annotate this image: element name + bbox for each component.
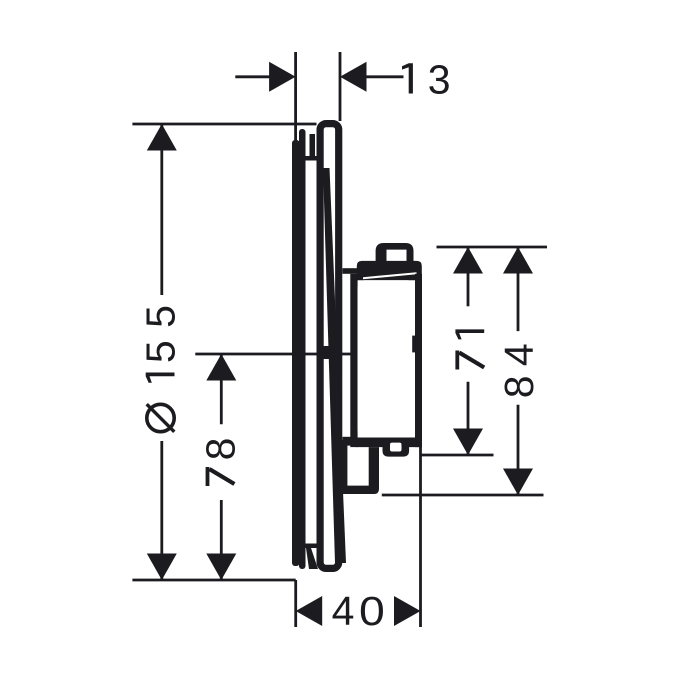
13 left extension line xyxy=(294,52,297,145)
knob body interior xyxy=(358,280,415,437)
bottom inner wedge xyxy=(306,548,318,569)
155/78 bottom extension xyxy=(132,579,295,582)
diameter symbol xyxy=(147,404,174,431)
wall flange bar (back of plate) xyxy=(292,140,300,566)
71 bottom extension xyxy=(421,454,494,457)
knob bottom tab xyxy=(383,441,410,457)
knob base bar white seam xyxy=(363,272,417,279)
top inner detail vertical xyxy=(310,134,316,161)
71 bottom arrow xyxy=(453,429,483,456)
13 dim tails xyxy=(235,75,270,78)
text 71 group xyxy=(455,329,484,369)
knob top tab xyxy=(376,243,414,262)
knob bottom tab interior xyxy=(390,443,402,452)
digit 7 of 71 xyxy=(455,351,459,370)
13 right extension line xyxy=(339,52,342,121)
digit 1 of 155 xyxy=(146,373,175,383)
front plate inner slanted line xyxy=(323,168,346,563)
78 dim line xyxy=(220,354,223,424)
84 dim line xyxy=(517,247,520,331)
svg-text:55: 55 xyxy=(138,305,184,363)
knob body right wall xyxy=(415,274,422,447)
78 top arrow xyxy=(206,354,236,381)
dimension texts xyxy=(138,57,543,635)
155 top extension xyxy=(132,123,316,126)
40 left arrow xyxy=(296,596,323,626)
top inner detail tick xyxy=(306,156,317,161)
text diameter 155 group xyxy=(138,305,184,432)
bottom inner detail tick xyxy=(306,544,318,549)
centerline xyxy=(195,353,353,356)
knob body right wall bump xyxy=(412,336,415,353)
svg-text:8: 8 xyxy=(197,437,243,460)
text 13 : custom glyph 1 xyxy=(402,63,413,93)
71 dim line xyxy=(467,247,470,306)
elbow bottom bar xyxy=(342,486,376,494)
knob body left wall xyxy=(350,274,357,447)
40 left extension xyxy=(294,580,297,627)
84 top arrow xyxy=(503,247,533,274)
front plate outline xyxy=(320,124,339,569)
svg-text:4: 4 xyxy=(332,588,355,634)
40 right extension xyxy=(419,447,422,627)
40 right arrow xyxy=(394,596,421,626)
knob body bottom bar xyxy=(350,438,420,448)
84 bottom extension xyxy=(382,494,544,497)
arrowheads xyxy=(147,62,533,626)
text 78 group xyxy=(197,437,243,486)
78 bottom arrow xyxy=(206,554,236,581)
plate-to-elbow column xyxy=(341,440,347,494)
13 left arrow xyxy=(269,62,296,92)
back plate bar xyxy=(299,129,306,569)
svg-text:84: 84 xyxy=(496,343,542,398)
sleeve top cap xyxy=(343,268,358,274)
digit 1 of 71 xyxy=(455,329,484,339)
71 top arrow xyxy=(453,247,483,274)
svg-text:3: 3 xyxy=(428,57,451,103)
plate mid seam patch xyxy=(320,346,331,359)
84 bottom arrow xyxy=(503,469,533,496)
right top extension xyxy=(437,246,548,249)
knob base bar with body top edge xyxy=(357,261,422,280)
155 bottom arrow xyxy=(147,554,177,581)
svg-text:0: 0 xyxy=(359,588,385,634)
digit 7 of 78 xyxy=(206,467,210,486)
dimension lines xyxy=(132,52,547,627)
sleeve bottom cap xyxy=(343,437,352,446)
elbow right wall xyxy=(369,447,379,494)
155 top arrow xyxy=(147,124,177,151)
155 dim line xyxy=(160,124,163,295)
13 right arrow xyxy=(340,62,367,92)
